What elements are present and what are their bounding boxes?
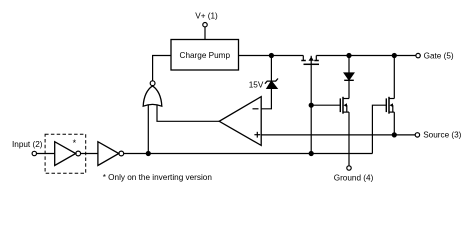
pin Input (2) xyxy=(12,140,43,156)
wire Q1 source to ground xyxy=(348,112,350,166)
svg-text:15V: 15V xyxy=(249,80,264,89)
wire input to inverter xyxy=(37,153,55,155)
wire NOR input B from comparator xyxy=(157,105,219,122)
pin Source (3) xyxy=(415,131,461,140)
node rail-zener xyxy=(269,54,273,58)
wire Q2 source to source rail xyxy=(393,112,395,135)
svg-text:V+ (1): V+ (1) xyxy=(195,11,218,20)
wire Q3 gate down to input line xyxy=(310,64,312,153)
NOR gate U2 xyxy=(143,81,162,106)
transistor Q1 xyxy=(340,97,349,114)
wire between inverters xyxy=(81,153,98,155)
node rail-Q2 drain xyxy=(392,54,396,58)
wire NOR output to charge pump xyxy=(153,56,171,81)
node input line tap xyxy=(309,152,313,156)
transistor Q3 depletion current source xyxy=(301,56,319,65)
wire Q2 drain to rail xyxy=(393,56,395,99)
wire Q1 drain to diode xyxy=(348,80,350,98)
wire source rail xyxy=(261,134,415,136)
inverter U4 xyxy=(55,142,81,166)
node Q2 source xyxy=(392,133,396,137)
node Q1 gate xyxy=(309,103,313,107)
wire V+ to charge pump xyxy=(204,27,206,40)
node rail-diode xyxy=(347,54,351,58)
svg-text:*: * xyxy=(73,138,77,148)
diode D1 xyxy=(344,56,354,81)
node NOR input A tap xyxy=(146,152,150,156)
pin V+ (1) xyxy=(195,11,218,27)
svg-text:* Only on the inverting versio: * Only on the inverting version xyxy=(103,173,213,182)
svg-text:Charge Pump: Charge Pump xyxy=(180,51,231,60)
wire NOR input A xyxy=(147,105,149,154)
wire Q2 gate route xyxy=(372,105,386,153)
wire gate rail left xyxy=(239,55,304,57)
charge pump U1 xyxy=(171,40,239,71)
inverter U5 xyxy=(98,142,124,166)
pin Gate (5) xyxy=(416,51,454,60)
wire input line xyxy=(124,153,373,155)
dashed option box xyxy=(45,134,86,173)
pin Ground (4) xyxy=(334,166,374,183)
zener diode D2 xyxy=(265,56,278,89)
svg-text:Gate (5): Gate (5) xyxy=(424,51,454,60)
transistor Q2 xyxy=(386,97,394,114)
wire Q1 gate xyxy=(311,104,340,106)
svg-text:Ground (4): Ground (4) xyxy=(334,173,374,182)
op-amp U3 comparator xyxy=(219,97,261,146)
wire gate rail right xyxy=(316,55,416,57)
svg-text:Input (2): Input (2) xyxy=(12,140,43,149)
wire comparator minus to zener xyxy=(261,88,271,108)
svg-text:Source (3): Source (3) xyxy=(423,131,461,140)
